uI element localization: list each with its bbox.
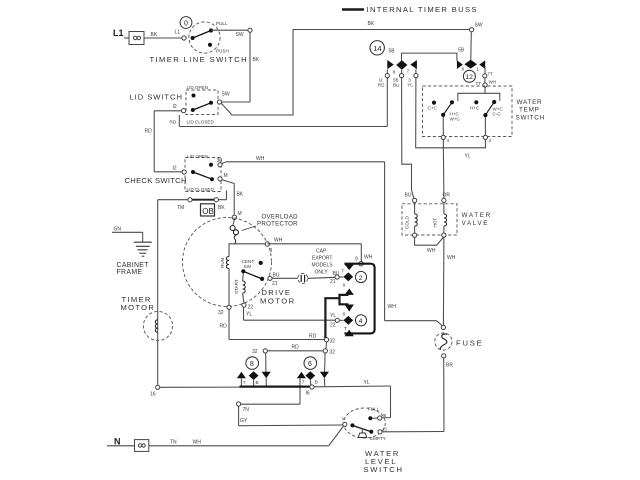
svg-text:N: N xyxy=(114,437,121,447)
svg-text:GN: GN xyxy=(114,227,122,233)
svg-text:W+C: W+C xyxy=(450,116,461,121)
svg-text:Y: Y xyxy=(342,416,345,421)
svg-text:I2: I2 xyxy=(173,166,177,172)
svg-text:CABINET: CABINET xyxy=(117,262,150,269)
wire TM line with nodes xyxy=(158,191,227,211)
svg-text:7T: 7T xyxy=(488,72,494,77)
svg-text:COLD: COLD xyxy=(405,216,410,229)
jumper bracket pins 3-4 xyxy=(340,295,349,304)
circled 6 xyxy=(304,357,317,370)
svg-text:2: 2 xyxy=(359,275,363,282)
svg-text:WH: WH xyxy=(193,440,202,446)
svg-text:INTERNAL TIMER BUSS: INTERNAL TIMER BUSS xyxy=(367,5,478,14)
svg-text:YL: YL xyxy=(407,83,413,88)
svg-text:RD: RD xyxy=(309,333,317,339)
svg-text:7N: 7N xyxy=(243,407,250,413)
node 32 lower left xyxy=(252,349,267,355)
fuse xyxy=(435,325,452,358)
svg-text:8: 8 xyxy=(250,361,254,368)
svg-text:WATER: WATER xyxy=(462,212,492,219)
node 21 BU at motor xyxy=(268,272,280,287)
circled 4 xyxy=(355,315,366,326)
svg-text:RD: RD xyxy=(220,324,228,330)
temp switch contact H+C xyxy=(470,100,480,110)
svg-text:START: START xyxy=(234,279,239,294)
wire motor WH to connector terminal 9 xyxy=(267,244,361,262)
svg-text:6: 6 xyxy=(308,361,312,368)
start winding xyxy=(234,273,245,302)
svg-text:WH: WH xyxy=(427,248,436,254)
wire switch to SW node xyxy=(211,30,248,38)
centrifugal switch xyxy=(241,259,264,281)
svg-text:7: 7 xyxy=(302,380,305,385)
connector diamond 2 xyxy=(343,272,353,281)
timer motor xyxy=(143,311,172,340)
connector 8 diamond xyxy=(249,371,259,386)
ground wire GN xyxy=(112,227,143,243)
svg-text:TT: TT xyxy=(476,81,482,86)
label: WATER LEVEL SWITCH xyxy=(364,449,404,474)
connector 2/4 housing xyxy=(344,264,374,334)
connector 14 diamond xyxy=(396,60,407,70)
svg-text:YL: YL xyxy=(330,313,336,319)
svg-text:MOTOR: MOTOR xyxy=(260,297,296,306)
svg-text:PULL: PULL xyxy=(216,21,228,26)
svg-text:BU: BU xyxy=(273,272,280,278)
svg-text:32: 32 xyxy=(330,339,336,345)
label: TIMER MOTOR xyxy=(121,295,156,312)
svg-text:SW: SW xyxy=(244,264,252,269)
node M at motor top xyxy=(232,211,241,220)
node SW right of timer buss xyxy=(470,22,483,32)
svg-text:7: 7 xyxy=(243,380,246,385)
svg-text:1: 1 xyxy=(476,66,479,71)
svg-text:OB: OB xyxy=(202,207,214,216)
node 32 lower right xyxy=(323,349,335,356)
wire L1 box to node L1, label BK xyxy=(144,32,182,38)
svg-text:ONLY: ONLY xyxy=(315,270,329,276)
terminal 9 WH on connector top xyxy=(355,255,373,266)
svg-text:WH: WH xyxy=(274,238,283,244)
node I6 xyxy=(306,385,315,396)
circled 2 xyxy=(355,271,366,282)
wire between 32 nodes (RD) xyxy=(267,345,323,351)
wire I6 to water level FULL (YL) xyxy=(314,380,391,418)
labels I2 RD / 5B BU / 3 YL xyxy=(378,78,414,88)
svg-text:LID CLOSED: LID CLOSED xyxy=(187,187,215,192)
svg-text:B: B xyxy=(315,380,318,385)
terminal L1 xyxy=(113,28,144,45)
circled 14 xyxy=(370,41,384,55)
timer cam circled 0 xyxy=(180,17,192,29)
terminal N xyxy=(107,437,149,452)
svg-text:BR: BR xyxy=(446,363,453,369)
cold solenoid xyxy=(405,203,418,234)
svg-text:GY: GY xyxy=(240,418,248,424)
node 22 YL at motor xyxy=(242,303,253,318)
svg-text:8: 8 xyxy=(393,69,396,74)
wire motor 21 to capacitor xyxy=(272,277,298,279)
wire water valve to fuse (WH) xyxy=(443,237,455,325)
svg-text:32: 32 xyxy=(330,350,336,356)
svg-text:BK: BK xyxy=(253,57,260,63)
label: DRIVE MOTOR xyxy=(260,288,296,305)
labels 7 B under connector 8 xyxy=(243,380,259,385)
wire fuse to water level switch (BR) xyxy=(382,358,453,432)
wire check switch M down to motor M (BK) xyxy=(222,180,244,215)
svg-text:MOTOR: MOTOR xyxy=(121,303,156,312)
svg-text:16: 16 xyxy=(150,392,156,398)
svg-text:CAP: CAP xyxy=(316,249,327,255)
svg-text:VALVE: VALVE xyxy=(462,220,490,227)
connector 12 pin left (triangle right) xyxy=(457,60,463,69)
svg-text:LID OPEN: LID OPEN xyxy=(187,85,208,90)
svg-text:SWITCH: SWITCH xyxy=(364,465,404,474)
connector 8 pin right (triangle down) xyxy=(262,372,271,386)
svg-text:C-C: C-C xyxy=(493,112,502,117)
svg-text:EMPTY: EMPTY xyxy=(370,436,386,441)
svg-text:12: 12 xyxy=(465,74,473,81)
svg-text:RD: RD xyxy=(292,345,300,351)
water valve bottom terminals xyxy=(413,233,447,237)
svg-text:0: 0 xyxy=(184,20,188,27)
svg-text:WH: WH xyxy=(447,255,456,261)
svg-text:WATER: WATER xyxy=(517,99,543,106)
connector pin 4 (triangle down) xyxy=(345,305,354,312)
circled 8 xyxy=(246,357,259,370)
svg-text:PROTECTOR: PROTECTOR xyxy=(257,221,298,228)
connector 12 diamond xyxy=(464,60,477,69)
svg-text:LID SWITCH: LID SWITCH xyxy=(130,93,183,102)
svg-text:PUSH: PUSH xyxy=(216,49,229,54)
svg-text:H+C: H+C xyxy=(470,105,480,110)
svg-text:WH: WH xyxy=(388,304,397,310)
timer line switch xyxy=(189,21,229,54)
wire capacitor to connector pin 21 xyxy=(308,277,335,278)
svg-text:4: 4 xyxy=(447,138,450,143)
label: CABINET FRAME xyxy=(117,262,150,276)
svg-text:B: B xyxy=(256,380,259,385)
temp switch contact C+C xyxy=(428,101,438,111)
terminal 22 YL with circle xyxy=(330,311,346,328)
svg-text:32: 32 xyxy=(218,310,224,316)
svg-text:32: 32 xyxy=(252,349,258,355)
svg-text:9: 9 xyxy=(270,248,273,254)
svg-text:14: 14 xyxy=(373,44,381,53)
connector pin 3 (triangle up) xyxy=(345,289,354,295)
connector 14 terminal circles xyxy=(385,70,418,78)
svg-text:4: 4 xyxy=(359,318,363,325)
svg-text:BU: BU xyxy=(405,192,412,198)
water level switch xyxy=(342,407,388,442)
svg-text:SW: SW xyxy=(236,32,244,38)
neutral wire N to water level Y (TN WH) xyxy=(149,426,344,446)
svg-text:YL: YL xyxy=(364,380,370,386)
neutral bus wire thin left part xyxy=(160,386,240,388)
labels 8 7 under connector 14 xyxy=(393,69,410,75)
label: OVERLOAD PROTECTOR with leader xyxy=(242,214,299,231)
neutral bus thick segment xyxy=(240,385,311,387)
check switch xyxy=(173,154,228,192)
svg-text:RD: RD xyxy=(145,129,153,135)
svg-text:BK: BK xyxy=(151,32,158,38)
terminal TT WH xyxy=(476,78,497,87)
svg-text:C+C: C+C xyxy=(428,105,438,110)
svg-text:LID CLOSED: LID CLOSED xyxy=(187,120,215,125)
svg-text:BK: BK xyxy=(237,192,244,198)
circled 12 xyxy=(463,70,475,82)
svg-text:TM: TM xyxy=(177,205,184,211)
run winding xyxy=(220,257,229,269)
svg-text:22: 22 xyxy=(330,323,336,329)
motor frame: top edge and left edge xyxy=(229,244,265,340)
svg-text:I6: I6 xyxy=(383,413,387,418)
svg-text:M: M xyxy=(238,211,242,217)
wire pin 5B/BU down to water valve BU xyxy=(402,78,414,199)
water valve box xyxy=(402,204,457,235)
svg-text:8: 8 xyxy=(343,311,346,316)
labels 7 B under connector 6 xyxy=(302,380,318,385)
wire BK down to lid switch xyxy=(222,32,260,102)
svg-text:9: 9 xyxy=(343,283,346,288)
svg-text:I2: I2 xyxy=(173,104,177,110)
connector pin 1 (triangle down) xyxy=(345,264,354,270)
node 16 xyxy=(150,385,160,397)
svg-text:LID OPEN: LID OPEN xyxy=(187,154,208,159)
water temp switch box xyxy=(423,86,513,137)
temp switch pole 2 xyxy=(483,100,503,117)
OB box xyxy=(201,204,215,216)
wire 5B diamond14 to connector 12 xyxy=(389,48,465,61)
svg-text:OR: OR xyxy=(443,192,451,198)
svg-text:HOT: HOT xyxy=(433,218,438,228)
node SW xyxy=(248,28,252,32)
wire lid closed contact to connector 14 pin I2 (RD) xyxy=(179,78,387,127)
labels 8 1 connector 12 xyxy=(462,66,480,71)
terminal 7T xyxy=(483,66,493,78)
wire 7N down and GY to water level Y xyxy=(239,406,343,426)
svg-text:L1: L1 xyxy=(113,28,124,38)
svg-text:BK: BK xyxy=(218,205,225,211)
svg-text:WH: WH xyxy=(489,80,497,85)
svg-text:TEMP: TEMP xyxy=(519,107,540,114)
svg-text:FRAME: FRAME xyxy=(117,269,143,276)
label: WATER TEMP SWITCH xyxy=(516,99,545,122)
connector 14 pin left (triangle right) xyxy=(387,60,394,69)
connector pin 5 (triangle up) xyxy=(345,330,354,336)
water valve common wire WH xyxy=(415,237,444,254)
svg-text:MODELS: MODELS xyxy=(312,263,334,269)
temp switch pole 1 xyxy=(441,100,460,121)
water valve terminal OR xyxy=(442,192,451,202)
terminal 3 on temp switch xyxy=(483,117,491,143)
svg-text:OVERLOAD: OVERLOAD xyxy=(262,214,299,221)
svg-text:8: 8 xyxy=(462,67,465,72)
svg-text:CHECK SWITCH: CHECK SWITCH xyxy=(125,176,187,185)
label: CAP EXPORT MODELS ONLY xyxy=(312,249,334,276)
svg-text:T: T xyxy=(342,269,345,274)
connector 6 diamond xyxy=(305,371,315,385)
svg-text:9: 9 xyxy=(355,256,358,262)
wire motor bottom RD to node 32 xyxy=(229,333,324,339)
node 9 WH at motor top xyxy=(265,238,283,255)
svg-text:RUN: RUN xyxy=(220,258,225,268)
terminal 4 on temp switch xyxy=(441,117,449,143)
wire terminal 4 down to water valve OR xyxy=(442,140,445,199)
svg-text:YL: YL xyxy=(465,154,471,160)
svg-text:YL: YL xyxy=(246,312,252,318)
svg-text:I5: I5 xyxy=(383,427,387,432)
overload protector xyxy=(230,220,238,245)
wire TM down to node 16 xyxy=(157,200,159,386)
connector diamond 4 xyxy=(343,316,353,325)
label: WATER VALVE xyxy=(462,212,492,227)
connector 8 pin left (triangle up) xyxy=(237,372,246,386)
node L1 xyxy=(175,30,187,41)
svg-text:BU: BU xyxy=(393,83,399,88)
wire 32 down to connector 6 pin xyxy=(325,342,327,373)
temp switch feed bracket xyxy=(458,87,500,101)
lid switch xyxy=(170,85,230,125)
svg-text:SW: SW xyxy=(475,22,483,28)
svg-text:T: T xyxy=(344,326,347,331)
svg-text:TN: TN xyxy=(170,440,177,446)
svg-text:SWITCH: SWITCH xyxy=(516,114,545,121)
svg-text:FULL: FULL xyxy=(368,407,380,412)
connector 14 pin right (triangle left) xyxy=(410,60,417,69)
terminal 21 BU with circle xyxy=(330,271,343,285)
svg-text:M: M xyxy=(224,173,228,179)
svg-text:WH: WH xyxy=(256,156,265,162)
svg-text:3: 3 xyxy=(489,138,492,143)
svg-text:21: 21 xyxy=(330,279,336,285)
thick riser node 32 to connector bracket xyxy=(325,298,339,338)
wire SW node down to diamond 12 xyxy=(470,32,473,60)
wire check switch 30 to fuse (WH) xyxy=(222,156,442,326)
node 32 right xyxy=(324,338,335,345)
svg-text:BK: BK xyxy=(368,21,375,27)
svg-text:RD: RD xyxy=(170,120,177,125)
wire 32 down to connector 8 pin xyxy=(265,353,267,373)
connector 6 pin left (triangle up) xyxy=(297,372,306,404)
svg-text:5B: 5B xyxy=(458,48,465,54)
svg-text:5B: 5B xyxy=(389,48,396,54)
wire pin 3/YL down to temp switch 3 (YL) xyxy=(416,78,486,160)
bracket connector 6 pin 7 to 7N node xyxy=(237,402,301,413)
drive motor dashed circle xyxy=(183,218,272,307)
svg-text:L1: L1 xyxy=(175,30,181,36)
svg-text:EXPORT: EXPORT xyxy=(312,256,332,262)
node 32 on motor left edge xyxy=(218,305,231,316)
hot solenoid xyxy=(433,203,447,234)
water valve terminal BU xyxy=(405,192,417,202)
svg-text:I6: I6 xyxy=(306,390,310,396)
capacitor (export models) xyxy=(298,273,308,283)
wire motor 22 to connector pin 22 (YL) xyxy=(244,307,336,320)
wire lid switch I2 to check switch I2 (RD) xyxy=(145,111,183,172)
svg-text:WH: WH xyxy=(364,255,373,261)
connector 6 pin right (triangle down) xyxy=(320,372,329,386)
svg-text:SW: SW xyxy=(222,92,230,98)
svg-text:7: 7 xyxy=(407,69,410,74)
wire lid switch SW to timer buss node (BK) xyxy=(222,21,470,115)
legend: internal timer buss xyxy=(342,5,478,14)
svg-text:TIMER LINE SWITCH: TIMER LINE SWITCH xyxy=(150,55,248,64)
svg-text:RD: RD xyxy=(378,83,385,88)
connector 12 pin right (triangle left) xyxy=(479,60,485,69)
cabinet frame ground symbol xyxy=(134,242,152,256)
svg-text:FUSE: FUSE xyxy=(456,338,483,347)
svg-text:21: 21 xyxy=(272,281,278,287)
svg-text:22: 22 xyxy=(248,305,254,311)
